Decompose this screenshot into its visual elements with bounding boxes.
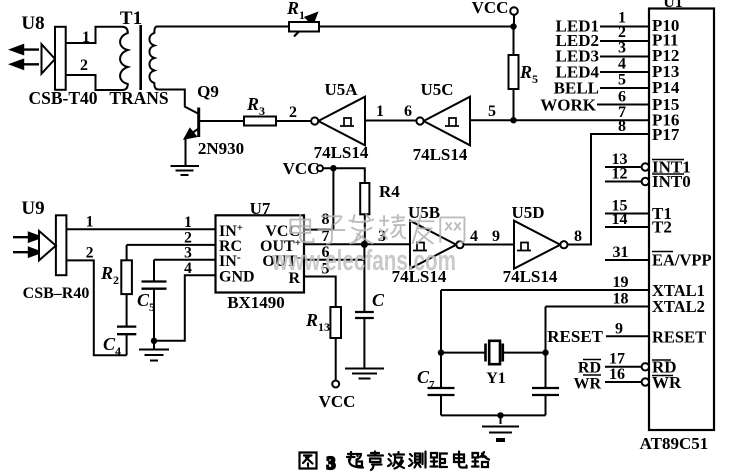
svg-text:U5D: U5D — [511, 203, 544, 222]
svg-text:T1: T1 — [120, 8, 142, 29]
svg-text:VCC: VCC — [319, 392, 356, 411]
svg-text:4: 4 — [618, 56, 626, 73]
svg-text:12: 12 — [612, 166, 628, 183]
svg-text:WORK: WORK — [540, 96, 597, 115]
svg-text:R: R — [100, 263, 113, 283]
svg-text:www.elecfans.com: www.elecfans.com — [271, 245, 456, 277]
svg-text:BX1490: BX1490 — [227, 293, 285, 312]
svg-text:74LS14: 74LS14 — [503, 267, 558, 286]
svg-text:U1: U1 — [663, 0, 683, 11]
svg-text:R: R — [246, 94, 259, 114]
svg-text:14: 14 — [612, 211, 628, 228]
svg-text:VCC: VCC — [283, 159, 320, 178]
svg-text:2N930: 2N930 — [198, 139, 244, 158]
svg-text:1: 1 — [86, 214, 94, 231]
svg-text:3: 3 — [327, 453, 336, 473]
svg-text:XTAL2: XTAL2 — [652, 297, 705, 316]
svg-text:31: 31 — [613, 244, 629, 261]
svg-text:C: C — [372, 290, 385, 310]
svg-text:U9: U9 — [21, 198, 44, 219]
svg-text:CSB-T40: CSB-T40 — [28, 88, 97, 108]
svg-text:5: 5 — [488, 103, 496, 120]
svg-text:1: 1 — [376, 103, 384, 120]
svg-text:8: 8 — [322, 211, 330, 228]
svg-text:3: 3 — [184, 245, 192, 262]
svg-text:2: 2 — [80, 57, 88, 74]
svg-text:19: 19 — [613, 274, 629, 291]
svg-text:5: 5 — [532, 72, 538, 86]
svg-text:13: 13 — [318, 320, 330, 334]
svg-text:INT0: INT0 — [652, 172, 691, 191]
svg-text:5: 5 — [618, 72, 626, 89]
svg-text:16: 16 — [609, 366, 625, 383]
svg-text:P17: P17 — [652, 125, 680, 144]
svg-text:U7: U7 — [250, 199, 271, 218]
svg-text:3: 3 — [259, 104, 265, 118]
svg-text:VCC: VCC — [472, 0, 509, 17]
svg-text:AT89C51: AT89C51 — [640, 434, 709, 453]
svg-text:1: 1 — [82, 29, 90, 46]
svg-text:WR: WR — [573, 376, 601, 393]
svg-text:U8: U8 — [21, 13, 44, 34]
svg-text:2: 2 — [86, 245, 94, 262]
svg-text:6: 6 — [618, 89, 626, 106]
svg-text:7: 7 — [429, 379, 435, 391]
svg-text:GND: GND — [219, 269, 255, 286]
svg-text:9: 9 — [492, 228, 500, 245]
svg-text:2: 2 — [113, 273, 119, 287]
svg-text:U5B: U5B — [408, 203, 440, 222]
svg-text:8: 8 — [618, 118, 626, 135]
svg-text:74LS14: 74LS14 — [314, 143, 369, 162]
svg-text:6: 6 — [404, 103, 412, 120]
svg-text:9: 9 — [615, 321, 623, 338]
svg-text:74LS14: 74LS14 — [413, 145, 468, 164]
svg-text:R4: R4 — [379, 182, 400, 201]
svg-text:U5A: U5A — [324, 80, 358, 99]
svg-text:RESET: RESET — [547, 327, 603, 346]
svg-text:TRANS: TRANS — [109, 88, 168, 108]
svg-text:5: 5 — [149, 300, 155, 314]
svg-text:4: 4 — [184, 260, 192, 277]
svg-text:RD: RD — [578, 360, 601, 377]
svg-text:3: 3 — [618, 40, 626, 57]
svg-text:2: 2 — [618, 24, 626, 41]
svg-text:1: 1 — [184, 214, 192, 231]
svg-text:CSB–R40: CSB–R40 — [23, 285, 90, 302]
svg-text:T2: T2 — [652, 218, 672, 237]
svg-text:2: 2 — [289, 104, 297, 121]
svg-text:4: 4 — [470, 228, 478, 245]
svg-text:1: 1 — [299, 8, 305, 22]
svg-text:4: 4 — [115, 344, 121, 358]
svg-text:EA/VPP: EA/VPP — [652, 251, 712, 270]
svg-text:U5C: U5C — [420, 80, 453, 99]
svg-text:Q9: Q9 — [197, 82, 219, 101]
svg-text:R: R — [286, 0, 299, 18]
svg-text:18: 18 — [613, 291, 629, 308]
svg-text:R: R — [305, 310, 318, 330]
svg-text:R: R — [519, 62, 532, 82]
svg-text:17: 17 — [609, 351, 625, 368]
svg-text:RESET: RESET — [652, 328, 706, 347]
svg-text:Y1: Y1 — [486, 370, 506, 387]
svg-text:8: 8 — [574, 228, 582, 245]
